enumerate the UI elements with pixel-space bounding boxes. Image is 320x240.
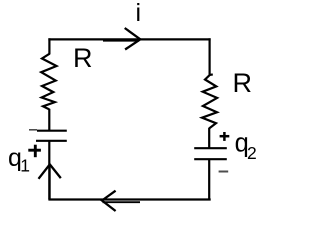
plus label capacitor C1: [28, 145, 41, 158]
resistor R2 right zigzag: [202, 74, 217, 128]
wire arrow shaft overlap bottom: [103, 201, 141, 203]
minus label capacitor C2: [219, 171, 229, 173]
wire left vertical upper: [48, 38, 50, 54]
svg-text:R: R: [73, 43, 93, 73]
svg-text:1: 1: [20, 155, 30, 175]
capacitor C2 bottom plate: [194, 158, 227, 160]
wire left vertical lower: [48, 141, 50, 200]
capacitor C1 top plate: [37, 130, 67, 132]
svg-text:i: i: [136, 0, 142, 27]
wire top horizontal: [48, 38, 210, 40]
capacitor C2 top plate: [194, 147, 227, 149]
current arrow left on bottom wire: [102, 191, 116, 211]
wire arrow shaft overlap top: [103, 40, 139, 42]
current arrow up left branch: [39, 164, 61, 178]
wire bottom horizontal: [48, 198, 210, 200]
plus label capacitor C2: [220, 132, 230, 141]
resistor R1 left zigzag: [41, 54, 56, 110]
wire right vertical mid: [208, 128, 210, 148]
current arrow right on top wire: [125, 28, 141, 50]
minus label capacitor C1: [29, 129, 37, 131]
wire arrow shaft overlap left: [49, 165, 51, 199]
capacitor C1 bottom plate: [36, 140, 67, 142]
wire right vertical lower: [208, 159, 210, 200]
wire left vertical mid: [48, 109, 50, 131]
svg-text:2: 2: [247, 143, 257, 163]
svg-text:R: R: [233, 68, 253, 98]
wire right vertical upper: [209, 38, 211, 75]
